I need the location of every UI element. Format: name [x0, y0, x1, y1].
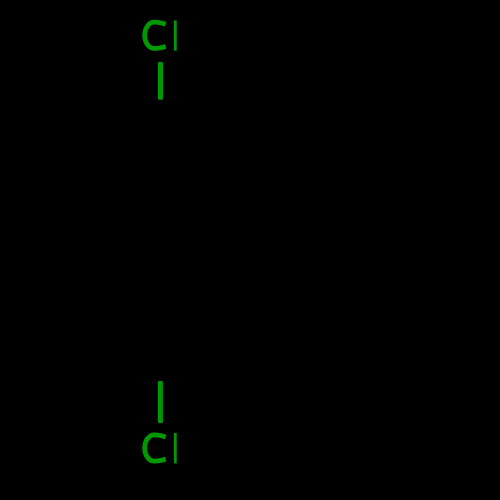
atom label Cl (bottom chlorine): letter l	[174, 433, 177, 463]
atom label Cl (bottom chlorine): letter C	[145, 435, 166, 461]
bond C1-Cl top (green half near Cl)	[158, 62, 163, 100]
atom label Cl (top chlorine): letter C	[145, 22, 166, 48]
atom label Cl (top chlorine): letter l	[174, 20, 177, 50]
bond C4-Cl bottom (green half near Cl)	[158, 381, 163, 423]
